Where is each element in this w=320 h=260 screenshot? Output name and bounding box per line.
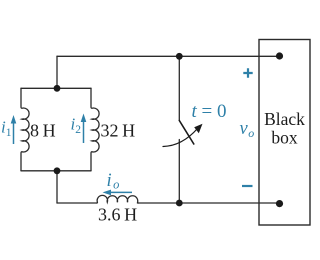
- wire: parallel-combination bottom rail: [21, 170, 91, 172]
- current arrow io: [110, 191, 132, 193]
- node: junction dot bottom of parallel rails: [54, 167, 61, 174]
- wire: bottom rail left of L3: [57, 202, 97, 204]
- svg-text:box: box: [271, 128, 298, 148]
- svg-text:io: io: [107, 171, 120, 192]
- svg-text:t = 0: t = 0: [192, 101, 227, 122]
- inductor L3 3.6 H (bottom coil): [97, 195, 139, 203]
- label + polarity: [243, 68, 252, 77]
- wire: top rail: [57, 55, 280, 57]
- svg-text:i2: i2: [71, 115, 82, 137]
- svg-text:3.6 H: 3.6 H: [98, 205, 137, 225]
- black box bottom terminal dot: [276, 200, 283, 207]
- wire: top-left vertical feed: [56, 56, 58, 88]
- node: junction dot top rail / switch branch: [176, 53, 183, 60]
- current arrow i2: [83, 120, 85, 143]
- inductor L1 8 H (left branch coil): [21, 88, 29, 171]
- current arrow i1: [13, 122, 15, 144]
- wire: parallel-combination top rail: [21, 87, 91, 89]
- wire: middle vertical drop: [56, 171, 58, 203]
- wire: switch branch lower segment: [178, 140, 180, 204]
- black box outline: [259, 40, 310, 226]
- svg-text:i1: i1: [1, 118, 12, 140]
- node: junction dot top of parallel rails: [54, 85, 61, 92]
- svg-text:8 H: 8 H: [30, 121, 56, 141]
- svg-text:vo: vo: [240, 119, 255, 140]
- switch motion arc: [163, 129, 198, 147]
- wire: switch branch upper segment: [178, 56, 180, 120]
- node: junction dot bottom rail / switch branch: [176, 200, 183, 207]
- switch blade: [179, 121, 194, 145]
- inductor L2 32 H (right branch coil): [91, 88, 99, 171]
- svg-text:32 H: 32 H: [101, 121, 136, 141]
- wire: bottom rail right of L3: [137, 202, 279, 204]
- label - polarity: [242, 185, 253, 187]
- svg-text:Black: Black: [264, 109, 305, 129]
- black box top terminal dot: [276, 52, 283, 59]
- switch arrowhead: [194, 124, 202, 133]
